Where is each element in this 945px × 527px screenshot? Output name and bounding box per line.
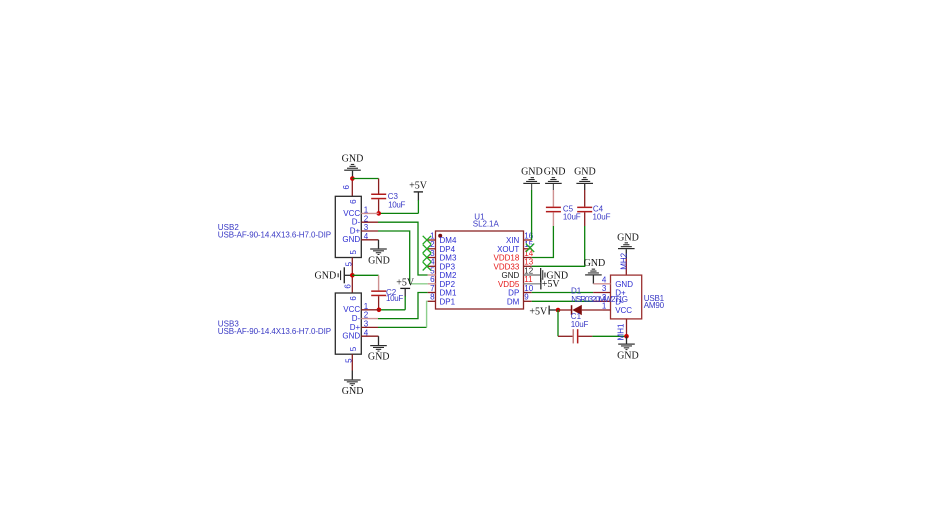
svg-text:VCC: VCC [343, 209, 360, 218]
svg-text:DM2: DM2 [440, 271, 457, 280]
pin 4 stub USB1 [593, 283, 610, 285]
diode D1 NSR0320MW2T1G [558, 287, 628, 316]
svg-text:5: 5 [430, 266, 435, 275]
svg-text:DP3: DP3 [440, 262, 456, 271]
pin 4 stub USB2 [361, 239, 378, 241]
svg-text:GND: GND [502, 271, 520, 280]
pin 1 stub USB2 [361, 212, 378, 214]
pin 2 stub DP4 [428, 248, 436, 250]
pin 3 stub USB3 [361, 326, 378, 328]
pin 13 stub VDD33 [524, 265, 532, 267]
wire +5V junction down to C1 [557, 310, 559, 336]
pin 14 stub VDD18 [524, 257, 532, 259]
junction C3 / VCC pin 1 USB2 [376, 211, 381, 216]
svg-text:+5V: +5V [409, 181, 428, 192]
connector USB1 AM90 [593, 275, 664, 319]
svg-text:GND: GND [617, 232, 639, 243]
svg-text:D-: D- [352, 314, 361, 323]
power +5V at diode [529, 306, 558, 318]
pin 1 stub USB1 [603, 309, 611, 311]
svg-text:VDD18: VDD18 [494, 254, 520, 263]
pin 15 stub XOUT [524, 248, 532, 250]
svg-text:10uF: 10uF [386, 294, 403, 303]
junction at GND above USB2 [350, 176, 355, 181]
ground above XIN [521, 167, 543, 190]
svg-text:6: 6 [342, 184, 351, 189]
wire junction to C3 top [352, 178, 378, 180]
pin 2 stub USB1 [593, 300, 610, 302]
wire C1 to MH1 junction [592, 335, 626, 337]
pin 11 stub VDD5 [524, 283, 541, 285]
capacitor C5 10uF [546, 190, 581, 226]
svg-text:GND: GND [342, 332, 360, 341]
ground below USB3 pin 5 [342, 379, 364, 397]
svg-text:XIN: XIN [506, 236, 520, 245]
wire USB3 D+ to chip DP1 [378, 301, 428, 327]
svg-text:GND: GND [584, 258, 606, 269]
svg-text:GND: GND [615, 280, 633, 289]
connector USB3 USB-AF-90-14.4X13.6-H7.0-DIP [218, 284, 379, 363]
svg-text:GND: GND [574, 167, 596, 178]
capacitor C2 10uF [371, 275, 403, 310]
svg-text:NSR0320MW2T1G: NSR0320MW2T1G [571, 295, 628, 304]
svg-text:GND: GND [342, 154, 364, 165]
svg-text:DP4: DP4 [440, 245, 456, 254]
svg-text:D-: D- [352, 218, 361, 227]
svg-text:10uF: 10uF [593, 212, 611, 221]
pin 3 stub DM3 [428, 257, 436, 259]
wire junction to C2 top [352, 274, 378, 276]
junction mid between USB2 and USB3 [350, 273, 355, 278]
svg-text:DP1: DP1 [440, 297, 456, 306]
power +5V above USB3 VCC [396, 278, 415, 297]
pin 1 stub USB3 [361, 309, 379, 311]
pin 5 stub DM2 [428, 274, 436, 276]
ground at USB2 pin 4 [368, 240, 390, 266]
svg-text:6: 6 [349, 199, 358, 204]
pin 3 stub USB2 [361, 230, 378, 232]
svg-text:10uF: 10uF [388, 200, 405, 209]
ground above C5 [544, 167, 566, 190]
no-connect X pin 15 [526, 244, 534, 252]
svg-text:USB-AF-90-14.4X13.6-H7.0-DIP: USB-AF-90-14.4X13.6-H7.0-DIP [218, 231, 331, 240]
svg-text:GND: GND [544, 167, 566, 178]
pin 2 stub USB3 [361, 318, 378, 320]
svg-text:DP: DP [508, 289, 519, 298]
svg-text:13: 13 [524, 258, 533, 267]
svg-text:6: 6 [349, 296, 358, 301]
junction C2 / VCC pin 1 USB3 [377, 308, 382, 313]
svg-text:+5V: +5V [529, 306, 548, 317]
svg-text:VDD5: VDD5 [498, 280, 520, 289]
pin 7 stub DM1 [428, 292, 436, 294]
svg-text:D+: D+ [350, 226, 361, 235]
ground sideways at mid junction [315, 267, 353, 283]
wire USB2 D+ to chip DP2 [378, 231, 428, 284]
svg-text:5: 5 [349, 346, 358, 351]
svg-text:DM3: DM3 [440, 254, 457, 263]
wire C4 to VDD33 pin 13 [532, 226, 585, 266]
svg-text:12: 12 [524, 266, 533, 275]
connector USB2 USB-AF-90-14.4X13.6-H7.0-DIP [218, 184, 379, 266]
wire DM pin 9 to USB1 D- [532, 300, 594, 302]
pin 6 stub DP2 [428, 283, 436, 285]
ground above MH2 [617, 232, 639, 258]
svg-text:16: 16 [524, 231, 533, 240]
svg-text:+5V: +5V [542, 279, 561, 290]
pin 1 stub DM4 [428, 239, 436, 241]
svg-text:AM90: AM90 [644, 301, 665, 310]
pin 3 stub USB1 [593, 292, 610, 294]
svg-text:GND: GND [521, 167, 543, 178]
no-connect X pin 1 [423, 236, 431, 244]
svg-text:11: 11 [524, 275, 533, 284]
pin 10 stub DP [524, 292, 532, 294]
svg-text:6: 6 [344, 284, 353, 289]
wire USB3 D- to chip DM1 [378, 293, 428, 319]
svg-text:MH1: MH1 [617, 323, 626, 340]
junction MH1 / C1 [624, 334, 629, 339]
svg-text:10: 10 [524, 284, 533, 293]
svg-text:SL2.1A: SL2.1A [473, 220, 500, 229]
pin 16 stub XIN [524, 239, 532, 241]
wire MH2 to ground [625, 258, 627, 275]
pin 12 stub GND [524, 274, 541, 276]
svg-text:DM: DM [507, 297, 520, 306]
svg-text:7: 7 [430, 284, 435, 293]
svg-text:10uF: 10uF [571, 320, 589, 329]
wire USB2 pin5 to junction to USB3 pin6 [351, 258, 353, 294]
svg-text:DP2: DP2 [440, 280, 456, 289]
ground GND top of USB2 [342, 154, 364, 179]
svg-text:GND: GND [368, 352, 390, 363]
svg-text:DM4: DM4 [440, 236, 457, 245]
capacitor C3 10uF [371, 179, 405, 214]
pin 9 stub DM [524, 300, 532, 302]
svg-text:DM1: DM1 [440, 289, 457, 298]
ground below MH1 [617, 336, 639, 361]
pin 8 stub DP1 [428, 300, 436, 302]
svg-text:D+: D+ [350, 323, 361, 332]
svg-text:10uF: 10uF [563, 212, 581, 221]
svg-text:8: 8 [430, 293, 435, 302]
ground at USB3 pin 4 [368, 336, 390, 362]
svg-text:USB-AF-90-14.4X13.6-H7.0-DIP: USB-AF-90-14.4X13.6-H7.0-DIP [218, 327, 331, 336]
power +5V sideways at pin 11 [540, 278, 560, 290]
svg-text:GND: GND [617, 351, 639, 362]
svg-text:+5V: +5V [396, 278, 415, 289]
svg-text:VCC: VCC [343, 305, 360, 314]
wire +5V down to VCC row [379, 200, 419, 213]
svg-text:GND: GND [368, 255, 390, 266]
ground above C4 [574, 167, 596, 190]
junction +5V / diode / C1 [556, 308, 561, 313]
ground sideways at pin 12 [540, 268, 568, 282]
power +5V above USB2 VCC [409, 181, 428, 201]
svg-text:GND: GND [342, 235, 360, 244]
capacitor C4 10uF [577, 190, 610, 226]
wire XIN to ground [531, 190, 533, 240]
op-amp U1 SL2.1A hub controller [428, 212, 541, 309]
svg-text:5: 5 [349, 250, 358, 255]
svg-text:6: 6 [430, 275, 435, 284]
svg-text:VDD33: VDD33 [494, 262, 520, 271]
pin 4 stub USB3 [361, 335, 378, 337]
svg-text:GND: GND [342, 386, 364, 397]
pin 2 stub USB2 [361, 221, 378, 223]
svg-text:XOUT: XOUT [497, 245, 519, 254]
svg-text:GND: GND [315, 271, 337, 282]
wire USB2 D- to chip DM2 [378, 222, 428, 275]
svg-text:MH2: MH2 [619, 252, 628, 269]
no-connect X pin 2 [423, 245, 431, 253]
ground above USB1 pin 4 [584, 258, 606, 284]
wire GND junction to pin 6 of USB2 [351, 179, 353, 197]
pin 4 stub DP3 [428, 265, 436, 267]
no-connect X pin 4 [423, 262, 431, 270]
svg-text:VCC: VCC [615, 306, 632, 315]
wire DP pin 10 to USB1 D+ [532, 292, 594, 294]
capacitor C1 10uF [558, 312, 592, 343]
wire USB3 pin 5 down [351, 354, 353, 379]
no-connect X pin 3 [423, 253, 431, 261]
wire MH1 down from USB1 [626, 319, 628, 336]
wire +5V down to USB3 VCC row [379, 296, 405, 310]
wire C5 to VDD18 pin 14 [532, 226, 554, 258]
svg-text:9: 9 [524, 293, 529, 302]
